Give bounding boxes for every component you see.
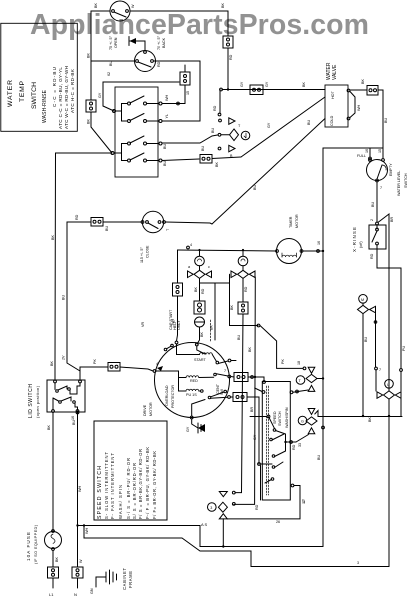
connector B5	[200, 155, 212, 164]
start coil	[200, 353, 213, 355]
wire right drop x228	[227, 11, 229, 36]
V4 right triangle	[370, 306, 376, 313]
svg-text:RD: RD	[75, 214, 79, 220]
cap start capacitor circle	[195, 317, 205, 327]
V3 bowtie	[238, 270, 249, 278]
wire 115V left	[103, 221, 141, 223]
svg-text:FULL: FULL	[357, 154, 366, 158]
svg-text:SWITCH: SWITCH	[31, 82, 38, 109]
link CD	[114, 144, 128, 154]
dashed governor link	[210, 320, 212, 341]
wire top left	[91, 10, 110, 12]
lid switch bottom terminals	[52, 410, 55, 413]
svg-text:OVERLOAD: OVERLOAD	[165, 385, 169, 406]
svg-text:OPEN: OPEN	[114, 37, 118, 48]
svg-text:SPEED SWITCH: SPEED SWITCH	[97, 466, 103, 519]
svg-text:BK: BK	[200, 332, 204, 337]
x389 down continue	[388, 416, 390, 567]
start switch arm	[212, 355, 216, 362]
svg-text:ATC H-C = RD-BK: ATC H-C = RD-BK	[70, 68, 75, 113]
wire temp common down to lid switch	[56, 152, 113, 154]
V3 down wire	[242, 278, 244, 302]
svg-text:26: 26	[276, 520, 280, 524]
svg-text:FRAME: FRAME	[128, 571, 133, 588]
svg-text:2: 2	[370, 219, 374, 221]
connector B14	[367, 86, 378, 96]
V3 wire to x229	[229, 274, 231, 283]
V5 circle U	[385, 380, 394, 389]
svg-text:A S: A S	[201, 522, 208, 527]
svg-text:GY: GY	[240, 81, 244, 87]
svg-text:BU: BU	[105, 226, 109, 231]
svg-text:PROTECTOR: PROTECTOR	[171, 385, 175, 408]
svg-text:RD: RD	[255, 504, 259, 510]
cap start box	[194, 301, 205, 314]
temp sw common AB path	[103, 82, 179, 111]
svg-text:(IF SO EQUIPPED): (IF SO EQUIPPED)	[33, 524, 38, 564]
wire to V7b	[296, 435, 309, 443]
V2 left triangle	[188, 271, 194, 278]
svg-text:WH: WH	[78, 486, 82, 492]
wire x177 down	[177, 250, 179, 283]
svg-text:S- SLOW INTERMITTENT: S- SLOW INTERMITTENT	[104, 452, 109, 519]
V1 bowtie solenoid	[230, 129, 239, 141]
V4 down wire	[362, 314, 364, 416]
svg-text:TEMP: TEMP	[19, 81, 26, 102]
svg-text:BU: BU	[253, 185, 257, 190]
speed box bottom wires	[260, 466, 262, 501]
internal wire top to start	[177, 344, 200, 355]
svg-text:TIMER: TIMER	[289, 216, 293, 228]
connector B4	[250, 85, 263, 95]
svg-text:MOTOR: MOTOR	[295, 214, 299, 228]
water level switch circle	[367, 160, 388, 181]
timer motor circle	[277, 239, 302, 264]
x323 junction at 427	[322, 426, 325, 429]
svg-text:WH: WH	[85, 528, 89, 534]
svg-text:SW: SW	[220, 389, 224, 395]
diagonal into temp switch common	[91, 127, 112, 153]
speed sw left terminal 2	[258, 463, 261, 466]
cent sw arm	[208, 396, 211, 399]
svg-text:17: 17	[302, 500, 306, 504]
svg-text:RD: RD	[201, 288, 205, 294]
wire xrinse top	[376, 225, 378, 229]
wire xrinse branch right BR	[379, 214, 390, 379]
svg-text:F/ F= BR-OR, GY-BK/ RD-BK: F/ F= BR-OR, GY-BK/ RD-BK	[152, 451, 157, 519]
svg-text:ATC W-C = RD-BU, GY-WH: ATC W-C = RD-BU, GY-WH	[64, 66, 69, 129]
wire below B3	[227, 48, 229, 90]
terminal WH	[159, 102, 162, 105]
thermo switch circle C2	[135, 51, 156, 72]
svg-text:WH: WH	[357, 105, 361, 111]
svg-text:75 +/- 5°: 75 +/- 5°	[109, 35, 113, 50]
svg-text:4: 4	[190, 243, 192, 247]
svg-text:C-C = RD-BU: C-C = RD-BU	[52, 67, 57, 107]
svg-text:BK: BK	[50, 361, 54, 366]
svg-text:CABINET: CABINET	[122, 568, 127, 590]
wire to L1	[52, 578, 54, 588]
wire lid right up branch PK	[80, 367, 108, 380]
svg-text:33: 33	[298, 443, 302, 447]
V2 right triangle	[206, 271, 212, 278]
right main vertical x323	[322, 148, 324, 547]
svg-text:MOTOR: MOTOR	[149, 402, 153, 416]
temp sw common CD	[111, 152, 114, 155]
V1 lower triangle	[229, 145, 235, 152]
svg-text:W: W	[79, 559, 83, 563]
svg-text:BK: BK	[194, 287, 198, 292]
connector B10	[238, 302, 248, 314]
temp sw contact D	[128, 159, 131, 162]
V7a bottom triangle	[308, 385, 315, 391]
svg-text:BU: BU	[371, 202, 375, 207]
svg-text:S/ S = BR-OR/RD-OR: S/ S = BR-OR/RD-OR	[132, 463, 137, 519]
wire xrinse bottom	[377, 245, 401, 268]
svg-text:BU: BU	[364, 337, 368, 342]
terminal 2	[376, 222, 379, 225]
motor bottom terminal	[190, 416, 193, 419]
wire lid right down W1	[77, 413, 79, 526]
svg-text:3: 3	[357, 561, 359, 565]
wire below B1	[90, 112, 92, 127]
internal left bus	[156, 371, 186, 391]
svg-text:COLD: COLD	[330, 115, 334, 126]
wire B12 right down x259	[247, 397, 259, 464]
svg-text:BK: BK	[302, 82, 306, 87]
svg-text:ATC C-C = RD-BU, GY-YL: ATC C-C = RD-BU, GY-YL	[58, 67, 63, 129]
label 7 x376	[375, 367, 378, 370]
svg-text:BK: BK	[47, 425, 51, 430]
svg-text:BR: BR	[250, 407, 254, 412]
svg-text:BACK: BACK	[162, 37, 166, 48]
wire B7 to motor left	[120, 367, 153, 371]
terminal C right	[159, 142, 162, 145]
diagonal BU 115V to COLD	[212, 119, 325, 225]
svg-text:HOT: HOT	[331, 90, 335, 99]
W1 wire bottom run	[78, 526, 324, 547]
svg-text:L1: L1	[49, 592, 54, 597]
svg-text:GY: GY	[265, 81, 269, 87]
svg-text:GY: GY	[253, 434, 257, 440]
svg-text:7: 7	[379, 368, 381, 372]
svg-text:15: 15	[186, 91, 190, 95]
svg-text:GY: GY	[98, 92, 102, 98]
svg-text:G: G	[301, 420, 304, 424]
svg-text:SWITCH: SWITCH	[404, 173, 408, 188]
svg-text:T: T	[299, 379, 302, 383]
connector B3	[223, 36, 233, 48]
wire B10 down to motor right top	[235, 314, 243, 493]
svg-text:BU: BU	[237, 335, 241, 340]
V6 stub down	[222, 519, 224, 547]
svg-text:EMPTY: EMPTY	[389, 163, 393, 176]
svg-text:BK: BK	[221, 3, 225, 8]
wire B2 bottom to WH	[184, 85, 186, 104]
svg-text:RD: RD	[292, 444, 296, 450]
wire x215	[214, 283, 216, 340]
junction right exit	[286, 441, 297, 443]
svg-text:CLOSE: CLOSE	[146, 245, 150, 258]
terminal D right	[159, 159, 162, 162]
wire left drop x91	[90, 11, 92, 100]
motor left terminal	[153, 370, 156, 373]
svg-text:SPEED: SPEED	[273, 411, 277, 424]
svg-text:LID SWITCH: LID SWITCH	[28, 384, 34, 418]
temp sw contact A	[128, 102, 131, 105]
terminal YL	[159, 120, 162, 123]
motor bottom ground wire	[192, 419, 198, 428]
wire x229 down-right chain	[230, 283, 259, 326]
svg-text:4: 4	[156, 362, 158, 366]
V3 right triangle	[249, 271, 255, 278]
wire y416 right	[315, 411, 402, 417]
connector B9	[173, 283, 183, 296]
svg-text:BU: BU	[307, 120, 311, 125]
svg-text:VR: VR	[141, 322, 145, 327]
dashed linkage speed	[265, 386, 267, 495]
svg-text:115 +/- 5°: 115 +/- 5°	[140, 247, 144, 263]
wire WLS bottom down	[376, 182, 378, 222]
connector B15 L1	[48, 567, 59, 578]
svg-text:BU: BU	[163, 144, 167, 149]
water temp switch box	[115, 87, 158, 177]
wire B11 right	[248, 377, 264, 381]
V6 bottom triangle	[219, 514, 227, 519]
V5 right triangle	[395, 392, 401, 399]
wire motor right to B11	[231, 376, 234, 379]
V5 down wire	[388, 399, 390, 416]
wire B5 to diagonal GY start	[212, 157, 241, 159]
svg-text:7: 7	[224, 369, 226, 373]
motor right terminals	[228, 359, 231, 362]
svg-text:BK: BK	[215, 162, 219, 167]
wire B6 left corner down x67	[67, 222, 91, 380]
svg-text:RD: RD	[229, 54, 233, 60]
V6 circle	[208, 503, 217, 512]
svg-text:PK: PK	[93, 359, 97, 364]
svg-text:WASH/ SPIN: WASH/ SPIN	[118, 485, 123, 519]
link AB	[115, 104, 128, 112]
speed sw left terminal 1	[267, 415, 270, 418]
V7a circle T	[296, 376, 305, 385]
svg-text:BU: BU	[62, 295, 66, 300]
V1 indicator circle	[241, 131, 250, 140]
lid switch top terminals	[54, 380, 57, 383]
lid switch contacts	[56, 390, 59, 393]
motor top terminal 1	[175, 341, 178, 344]
V4 circle M	[359, 295, 368, 304]
main right terminal	[199, 390, 201, 392]
wire valve to B14	[350, 89, 367, 91]
chain to BK wire	[260, 326, 303, 369]
wire top right to right drop	[130, 10, 228, 12]
svg-text:X-RINSE: X-RINSE	[352, 227, 357, 252]
temp sw contact C	[128, 142, 131, 145]
speed switch contact box	[262, 382, 290, 501]
wire y250 bus	[178, 250, 277, 251]
svg-text:YL: YL	[165, 114, 169, 119]
terminal 16 top left	[76, 411, 79, 414]
svg-text:WASH-RINSE: WASH-RINSE	[42, 89, 48, 123]
svg-text:BU: BU	[317, 455, 321, 460]
cross wire V2-V3	[200, 282, 230, 284]
wire x200 down	[199, 61, 201, 121]
svg-text:18: 18	[297, 361, 301, 365]
svg-text:M: M	[361, 298, 364, 302]
lid switch box	[47, 380, 85, 412]
V1 lower terminal	[218, 147, 221, 150]
V1 mid terminal	[218, 133, 221, 136]
svg-text:VALVE: VALVE	[332, 64, 338, 80]
svg-text:BK: BK	[51, 235, 55, 240]
svg-text:T: T	[238, 124, 241, 128]
svg-text:BU: BU	[201, 146, 205, 151]
wire lid left down to fuse	[52, 413, 54, 532]
diagonal GY to valve	[241, 97, 325, 157]
svg-text:a: a	[188, 265, 191, 269]
wire speed box to V7a bottom	[290, 391, 293, 394]
V6 top triangle	[219, 492, 227, 497]
connector B11	[234, 373, 248, 382]
V1 top triangle	[229, 118, 235, 125]
x-rinse box	[369, 225, 386, 249]
terminal x401	[400, 369, 403, 372]
V7b top triangle	[308, 409, 315, 415]
svg-text:W: W	[131, 4, 135, 8]
wire B14 to corner down	[378, 90, 383, 158]
svg-text:DRIVE: DRIVE	[143, 404, 147, 416]
svg-text:BK: BK	[368, 417, 372, 422]
V7b bottom triangle	[308, 428, 315, 434]
svg-text:SWITCH: SWITCH	[278, 411, 282, 426]
connector B1	[86, 100, 96, 112]
water temp switch info box	[1, 23, 78, 131]
svg-text:2V: 2V	[62, 355, 66, 360]
V7a triangle	[308, 367, 315, 373]
red coil	[186, 376, 199, 378]
svg-text:BU: BU	[163, 161, 167, 166]
svg-text:F/ S = BR-BK,GY-BK/ RD-OR: F/ S = BR-BK,GY-BK/ RD-OR	[138, 449, 143, 519]
water valve box	[325, 85, 348, 127]
svg-text:WASH/SPIN: WASH/SPIN	[285, 407, 289, 428]
ground symbol motor	[197, 423, 199, 433]
speed switch info box	[94, 421, 167, 520]
label 16 terminal	[369, 157, 372, 160]
V2 bowtie	[194, 270, 205, 278]
wire B9 to motor top	[177, 296, 178, 341]
red arm	[199, 376, 214, 378]
V6 stub up	[232, 491, 235, 494]
svg-text:3: 3	[210, 506, 212, 510]
C2 top sensor symbol	[130, 41, 145, 51]
svg-text:F-/ F = BR-PU, GY-BK/ RD-BK: F-/ F = BR-PU, GY-BK/ RD-BK	[145, 447, 150, 519]
wire y90 to valve	[222, 89, 325, 91]
svg-text:BK: BK	[55, 557, 59, 562]
connector B16 N	[72, 567, 83, 578]
svg-text:c: c	[208, 265, 210, 269]
svg-text:WATER: WATER	[7, 80, 14, 107]
svg-text:16: 16	[365, 149, 369, 153]
V5 left triangle	[377, 392, 383, 399]
main coil PU 1S	[186, 389, 199, 391]
svg-text:BU: BU	[384, 118, 388, 123]
N branch	[76, 524, 78, 526]
svg-text:RED: RED	[190, 379, 198, 383]
svg-text:RD: RD	[244, 286, 248, 292]
svg-text:BK: BK	[87, 119, 91, 124]
wire x255 down	[234, 277, 256, 504]
wire to N	[77, 578, 79, 588]
svg-text:RD: RD	[157, 61, 161, 67]
wire fuse down	[52, 551, 54, 568]
wire cap to motor top	[197, 327, 200, 344]
svg-text:S-/ S = BR-PU/ RD-OR: S-/ S = BR-PU/ RD-OR	[126, 458, 131, 519]
V7b circle G	[298, 416, 307, 425]
svg-text:62: 62	[107, 72, 111, 76]
wire x375 chain	[375, 314, 377, 368]
svg-text:AppliancePartsPros.com: AppliancePartsPros.com	[30, 9, 369, 41]
cabinet frame ground	[105, 572, 107, 582]
temp sw contact B	[128, 120, 131, 123]
V4 bowtie	[358, 305, 369, 313]
svg-text:70 +/- 5°: 70 +/- 5°	[157, 35, 161, 50]
wire motor right to B12	[231, 396, 234, 398]
svg-text:PU 1S: PU 1S	[186, 393, 197, 397]
svg-text:BK: BK	[230, 305, 234, 310]
wire C2 right to x200	[154, 60, 200, 62]
speed contacts	[273, 429, 276, 432]
svg-text:BK: BK	[87, 53, 91, 58]
svg-text:PK: PK	[281, 359, 285, 364]
svg-text:16: 16	[71, 416, 75, 420]
push-pull switch circle top	[110, 1, 130, 21]
V7a stub to x323	[317, 378, 324, 380]
wire timer right	[303, 250, 323, 252]
115V switch circle	[142, 211, 163, 232]
svg-text:BK: BK	[248, 347, 252, 352]
connector B7	[108, 363, 120, 372]
svg-text:RD: RD	[370, 253, 374, 259]
svg-text:10A FUSE: 10A FUSE	[26, 532, 31, 561]
valve cluster V2 circle	[195, 256, 205, 266]
V3 left triangle	[231, 271, 237, 278]
junction dots y416	[362, 415, 364, 417]
V7b bowtie	[306, 417, 317, 425]
svg-text:BR: BR	[390, 217, 394, 222]
V6 bowtie	[218, 502, 227, 512]
svg-text:N: N	[74, 592, 77, 597]
V5 bowtie	[384, 391, 395, 399]
connector B12	[233, 393, 247, 402]
valve cluster V3 circle	[238, 256, 248, 266]
svg-text:(off): (off)	[359, 241, 363, 248]
svg-text:BK: BK	[210, 325, 214, 330]
svg-text:(open position): (open position)	[36, 385, 40, 418]
svg-text:T: T	[166, 228, 170, 231]
diagonal from C to V1	[162, 135, 218, 143]
motor internal bottom wire	[192, 400, 205, 417]
svg-text:BK: BK	[361, 79, 365, 84]
V7a bowtie	[306, 374, 317, 382]
svg-text:GY: GY	[267, 122, 271, 128]
wire x401 down	[400, 268, 402, 369]
svg-text:F- FAST INTERMITTENT: F- FAST INTERMITTENT	[110, 453, 115, 519]
connector B2	[180, 72, 190, 85]
wire C2 left	[91, 60, 134, 62]
motor top terminal 2	[195, 343, 198, 346]
WB wire	[83, 524, 85, 526]
